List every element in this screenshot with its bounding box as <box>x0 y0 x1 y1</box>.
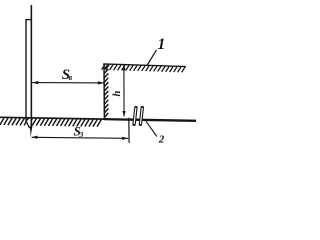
S_3 extension line <box>128 118 130 143</box>
h bottom arrowhead <box>122 111 125 117</box>
ground line (furrow bottom) <box>0 117 104 119</box>
svg-text:h: h <box>112 91 123 97</box>
leader line for label 2 <box>146 121 157 136</box>
ground line right segment <box>104 119 196 121</box>
svg-text:в: в <box>69 73 73 82</box>
S_v right arrowhead <box>98 81 104 84</box>
S_v left arrowhead <box>32 81 38 84</box>
dimension line S_3 <box>32 137 129 138</box>
hatching on furrow wall <box>104 65 108 118</box>
svg-text:3: 3 <box>79 130 84 139</box>
soil hatching below field surface <box>102 65 185 73</box>
blade tip <box>30 126 33 137</box>
slot marker 1 <box>134 108 136 125</box>
S_3 right arrowhead <box>122 137 128 140</box>
dimension line h <box>123 65 125 116</box>
blade lower bend <box>26 121 30 128</box>
field surface line <box>103 64 186 67</box>
dimension line S_v <box>32 82 104 84</box>
blade right line <box>30 5 32 128</box>
h top arrowhead <box>122 64 125 70</box>
leader line for label 1 <box>147 50 156 65</box>
svg-text:1: 1 <box>157 36 165 53</box>
furrow wall line <box>103 64 105 120</box>
slot marker 2 <box>140 108 142 125</box>
soil hatching below furrow bottom <box>0 118 101 127</box>
blade left line <box>25 20 27 122</box>
blade top connector <box>25 19 31 21</box>
svg-text:2: 2 <box>158 133 165 145</box>
blade interior mask <box>27 121 31 128</box>
S_3 left arrowhead <box>31 136 37 139</box>
